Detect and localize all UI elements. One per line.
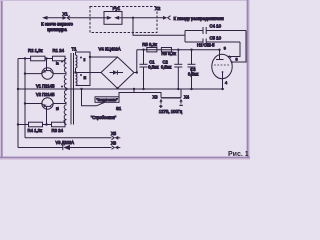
node: jumper branch: [89, 56, 91, 58]
connector X6: [112, 146, 121, 150]
svg-text:X5: X5: [111, 131, 117, 136]
svg-text:0,5мк: 0,5мк: [161, 64, 172, 69]
capacitor C2: [174, 50, 182, 89]
node: C2 top: [177, 49, 179, 51]
svg-text:Iа: Iа: [56, 62, 59, 66]
node: bridge minus at ground: [116, 87, 118, 89]
svg-text:T1: T1: [72, 47, 78, 52]
node: C3 top: [190, 49, 192, 51]
svg-text:0,5мк: 0,5мк: [148, 64, 159, 69]
connector X2 (arrow to distributor): [163, 16, 171, 20]
svg-text:V3 Д202А: V3 Д202А: [56, 140, 75, 145]
wire: winding II top jumper to winding III bottom: [76, 52, 91, 86]
resistor R5: [147, 48, 157, 52]
frame left edge: [0, 0, 2, 160]
svg-text:H1 СШ-5: H1 СШ-5: [197, 43, 215, 48]
svg-text:цилиндра: цилиндра: [47, 27, 67, 32]
connector X1 (plug-socket): [63, 16, 91, 20]
wire: plus riser to top rail: [136, 50, 138, 73]
frame top edge: [0, 0, 250, 1]
resistor R2: [31, 56, 45, 61]
resistor R4: [29, 122, 43, 127]
svg-text:S1: S1: [116, 106, 122, 111]
wire: box to X3 node: [119, 93, 161, 98]
capacitor C3: [188, 50, 196, 89]
svg-text:R3 24: R3 24: [52, 128, 64, 133]
wire: jumper to bridge top vertex: [90, 56, 118, 58]
connector X5: [112, 136, 121, 140]
wire: bridge plus output: [134, 72, 137, 74]
wire: R4 to R3: [43, 124, 52, 126]
svg-text:К гнезду распределителя: К гнезду распределителя: [174, 16, 225, 21]
wire: V2 emitter to rail: [25, 103, 42, 105]
node: bridge plus junction: [136, 71, 138, 73]
wire: vertical feed of C4/C5: [184, 31, 186, 43]
svg-text:III: III: [84, 76, 87, 80]
transformer winding III (right bottom): [76, 73, 78, 86]
resistor R6: [161, 48, 171, 52]
transformer winding II (right top): [76, 55, 78, 68]
node: C3 bottom: [190, 88, 192, 90]
wire: V1 emitter to rail: [25, 73, 42, 75]
node: V2 base junction: [45, 123, 47, 125]
svg-text:R4 1,3к: R4 1,3к: [28, 128, 43, 133]
switch position box Зажигание: [95, 97, 119, 103]
svg-text:II: II: [84, 58, 86, 62]
node: C2 bottom: [177, 88, 179, 90]
resistor R3: [52, 122, 66, 127]
dashed screen box: [90, 7, 157, 33]
wire: R2 to R1: [45, 58, 53, 60]
svg-text:X6: X6: [111, 141, 117, 146]
svg-text:Iб: Iб: [56, 107, 59, 111]
polarity dot winding I top: [61, 61, 63, 63]
svg-text:−: −: [180, 103, 183, 108]
strobe lamp H1: [212, 50, 233, 89]
wire: X1 to spark gap: [90, 17, 104, 19]
svg-text:"Стробоскоп": "Стробоскоп": [91, 115, 117, 120]
svg-text:"Зажигание": "Зажигание": [96, 98, 118, 102]
node: rail dot at centre tap wire: [17, 88, 19, 90]
svg-text:V4 КЦ402А: V4 КЦ402А: [99, 46, 121, 51]
wire: X5 feed line: [25, 137, 112, 139]
connector X4: [179, 99, 182, 104]
svg-text:R5 9,2к: R5 9,2к: [142, 42, 157, 47]
svg-text:+: +: [160, 104, 163, 109]
spark gap Ру1: [104, 12, 122, 25]
node: emitter rail top: [24, 57, 26, 59]
svg-text:C4 10: C4 10: [210, 24, 222, 29]
svg-text:Рис. 1: Рис. 1: [228, 151, 249, 158]
svg-text:C5 10: C5 10: [210, 36, 222, 41]
transformer T1 core: [71, 53, 74, 125]
wire: bottom bias row: [18, 124, 29, 126]
polarity dot winding I lower: [64, 120, 66, 122]
svg-text:127В, 100Гц: 127В, 100Гц: [159, 109, 183, 114]
frame bottom edge: [0, 157, 250, 159]
svg-text:X1: X1: [63, 11, 69, 16]
wire: X6 feed line with diode: [18, 147, 63, 149]
node: junction at trigger takeoff: [132, 17, 134, 19]
node: ground drop: [133, 88, 135, 90]
capacitor C4: [185, 27, 246, 34]
node: winding centre tap on ground wire: [65, 88, 67, 90]
wire: ground drop to switch: [82, 89, 97, 106]
wire: spark-plug lead with arrow to first cylinder: [42, 16, 63, 20]
wire: R1 to winding top: [65, 58, 67, 60]
polarity dot winding I middle: [61, 86, 63, 88]
svg-text:X3: X3: [153, 94, 159, 99]
svg-text:R6 9,2к: R6 9,2к: [161, 51, 176, 56]
switch S1 lever: [97, 101, 106, 106]
capacitor C1: [140, 50, 148, 89]
svg-text:V2 П214Б: V2 П214Б: [36, 92, 55, 97]
connector X3: [159, 99, 162, 104]
wire: winding mid tap to bridge left vertex: [76, 68, 102, 73]
transistor V1: [42, 59, 53, 80]
frame right edge: [247, 0, 249, 160]
svg-text:V1 П214Б: V1 П214Б: [36, 83, 55, 88]
diode V3: [63, 145, 70, 150]
node: rail dot at bottom row: [17, 123, 19, 125]
rectifier bridge V4: [101, 57, 134, 88]
node: V2 emitter junction: [24, 102, 26, 104]
ground rail: [18, 88, 224, 90]
node: C1 top: [142, 49, 144, 51]
wire: C5 to lamp upper right electrode: [228, 42, 240, 57]
svg-text:R2 1,3к: R2 1,3к: [28, 48, 43, 53]
svg-text:Ру1: Ру1: [113, 6, 121, 11]
emitter rail: [24, 59, 26, 138]
wire: junction down and right to trigger caps: [133, 18, 185, 35]
polarity dot winding III: [80, 74, 82, 76]
node: V1 emitter junction: [24, 72, 26, 74]
svg-text:0,5мк: 0,5мк: [188, 71, 199, 76]
polarity dot winding II: [80, 57, 82, 59]
top HV rail: [137, 49, 220, 51]
capacitor C5: [185, 39, 240, 46]
wire: lamp cathode to ground: [221, 88, 223, 90]
transistor V2: [42, 98, 53, 125]
svg-text:X2: X2: [155, 6, 161, 11]
svg-text:X4: X4: [184, 94, 190, 99]
resistor R1: [53, 56, 66, 61]
svg-text:R1 24: R1 24: [53, 48, 65, 53]
wire: X4 riser to ground rail: [180, 89, 182, 98]
svg-text:8: 8: [236, 58, 238, 62]
wire: ground rail drop to X3 wire: [133, 89, 135, 93]
left supply rail (negative): [17, 59, 19, 148]
wire: V2 collector to winding tap: [53, 103, 66, 105]
svg-text:4: 4: [225, 81, 227, 85]
node: lamp anode takeoff: [218, 49, 220, 51]
wire: R3 to winding bottom: [65, 124, 67, 126]
wire: C4 to lamp right electrode: [232, 31, 247, 63]
external supply bar X3-X4: [161, 97, 181, 99]
transformer winding I (left, tapped): [64, 59, 66, 125]
wire: top bias row: [18, 58, 31, 60]
svg-text:9: 9: [224, 46, 226, 50]
node: winding mid tap: [74, 71, 76, 73]
node: V1 base junction: [45, 57, 47, 59]
node: switch takeoff on ground rail: [80, 88, 82, 90]
node: C1 bottom: [142, 88, 144, 90]
wire: spark gap to X2: [122, 17, 163, 19]
wire: V1 collector to winding tap: [53, 73, 66, 75]
